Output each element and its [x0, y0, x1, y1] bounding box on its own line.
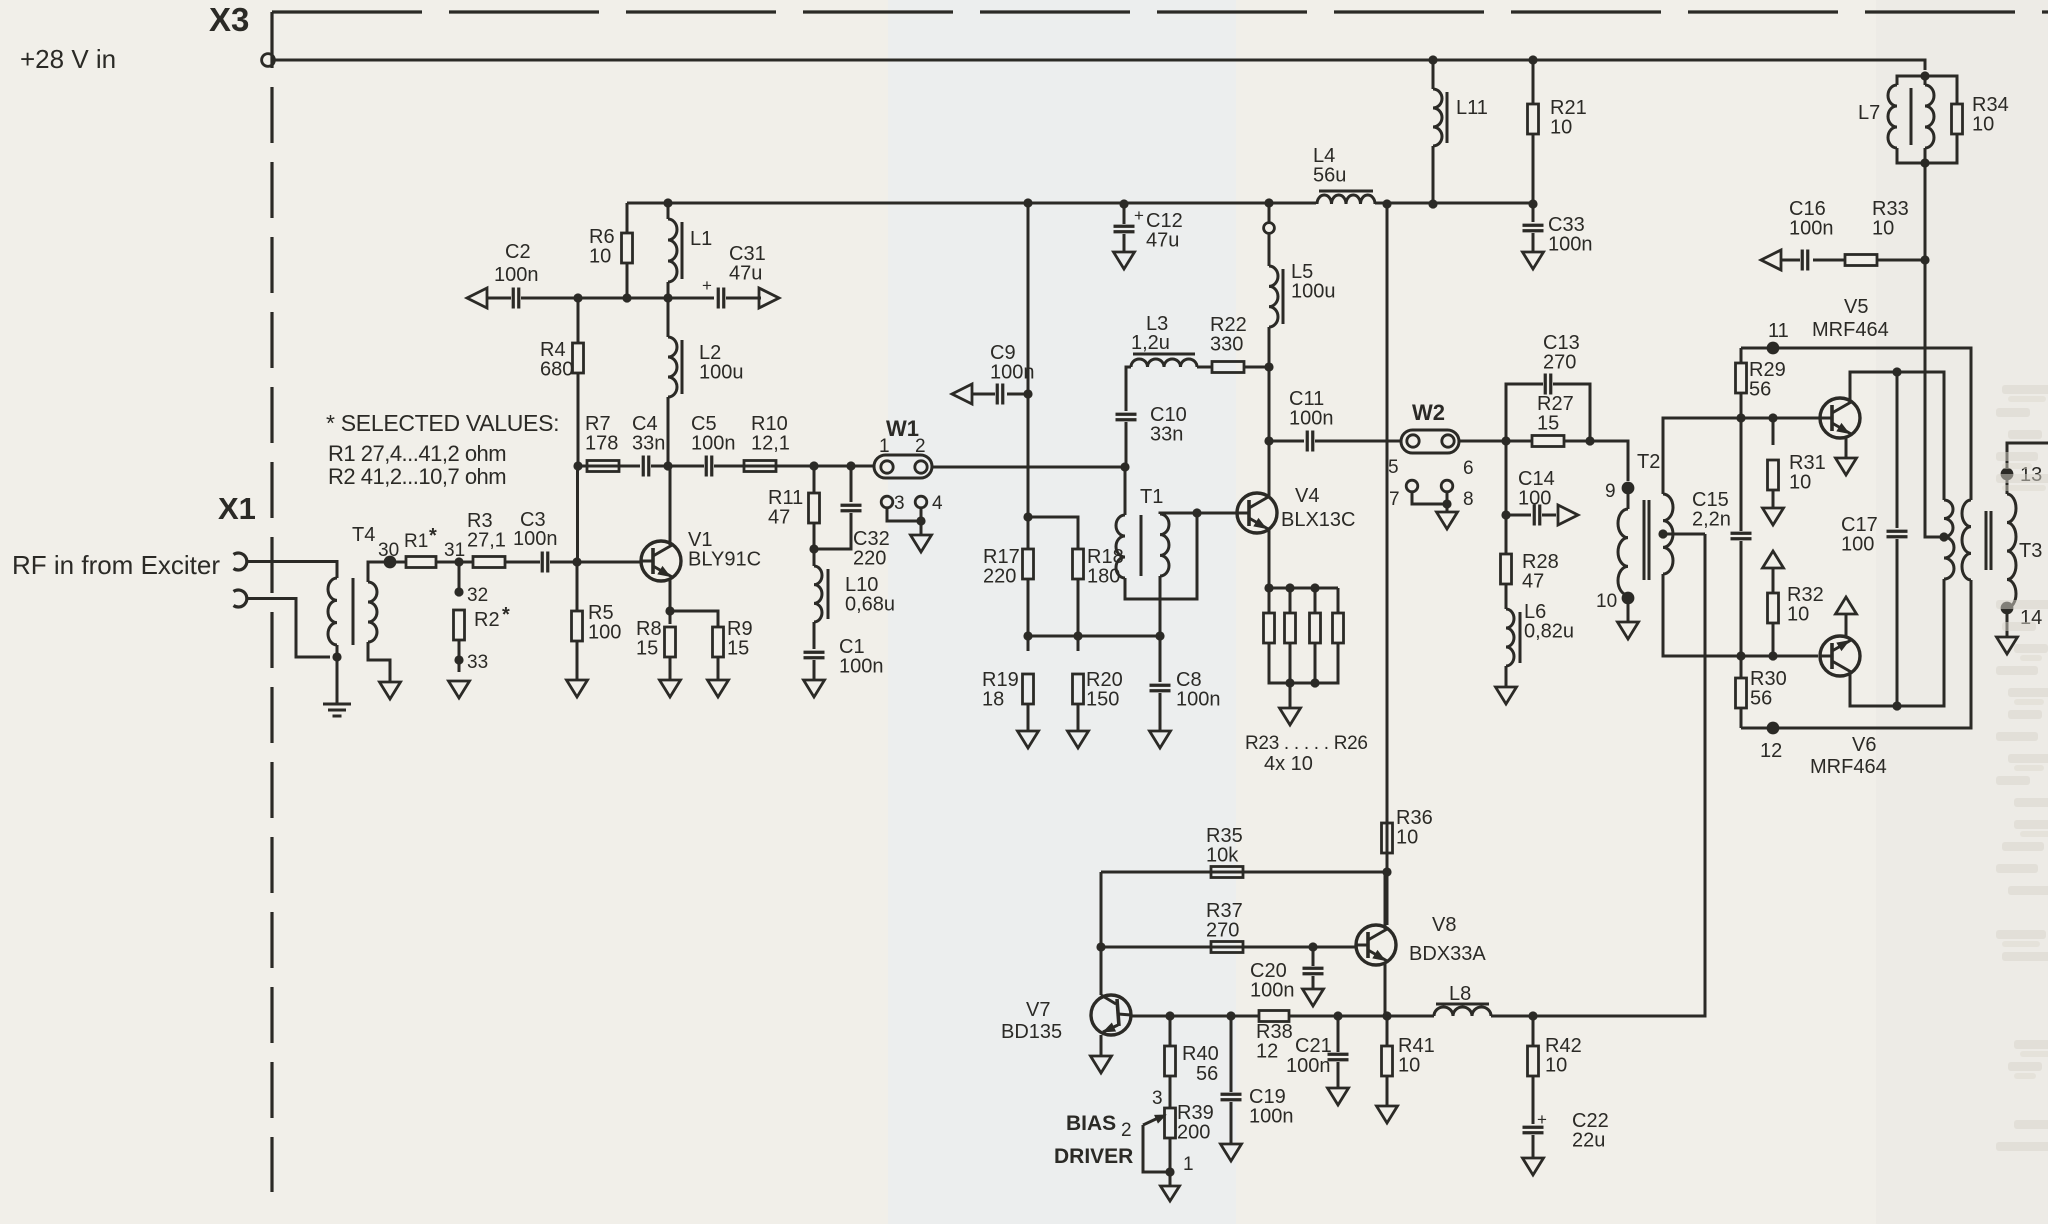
resistor R38	[1259, 1011, 1289, 1022]
junction rail x1028	[1023, 198, 1032, 207]
junction V5 base/R29	[1736, 413, 1745, 422]
junction R17/R18 tap	[1023, 512, 1032, 521]
resistor R32	[1772, 568, 1775, 593]
svg-text:5: 5	[1388, 457, 1399, 478]
capacitor C13 bypass loop	[1506, 384, 1543, 441]
resistor R9	[713, 627, 724, 657]
svg-text:L7: L7	[1858, 102, 1880, 124]
scan tint band middle	[888, 0, 1236, 1224]
resistor R3	[473, 557, 505, 568]
transformer T4	[328, 578, 337, 645]
svg-text:T2: T2	[1637, 451, 1660, 473]
wire V1 collector	[669, 466, 672, 545]
wire R35 row	[1101, 871, 1387, 874]
junction driver feed top	[1382, 199, 1391, 208]
junction emitter node	[665, 606, 674, 615]
inductor L10	[814, 566, 822, 622]
svg-text:27,1: 27,1	[467, 530, 506, 552]
wire R35 left down	[1100, 872, 1103, 995]
capacitor C11	[1269, 440, 1304, 443]
ground arrow R20	[1068, 731, 1089, 748]
svg-text:32: 32	[467, 585, 488, 606]
svg-text:L1: L1	[690, 228, 712, 250]
svg-text:31: 31	[444, 540, 465, 561]
junction T4 primary bottom	[332, 652, 341, 661]
junction T1 base node	[1192, 508, 1201, 517]
svg-text:R23 . . . . . R26: R23 . . . . . R26	[1245, 733, 1368, 754]
svg-text:W2: W2	[1412, 400, 1445, 425]
node 10	[1627, 595, 1630, 622]
svg-text:12: 12	[1760, 740, 1782, 762]
junction L7 top	[1920, 71, 1929, 80]
T2 secondary centre tap	[1658, 529, 1667, 538]
inductor L4	[1317, 195, 1375, 204]
svg-text:T1: T1	[1140, 486, 1163, 508]
svg-text:100: 100	[1518, 488, 1551, 510]
wire main row stage1	[578, 465, 640, 468]
junction R37 left	[1096, 942, 1105, 951]
svg-text:33: 33	[467, 652, 488, 673]
wire V5 collector	[1850, 372, 1944, 500]
svg-text:DRIVER: DRIVER	[1054, 1145, 1133, 1168]
junction L2 bottom collector node	[663, 461, 672, 470]
svg-text:* SELECTED VALUES:: * SELECTED VALUES:	[326, 410, 559, 436]
transformer T2 secondary	[1663, 494, 1673, 574]
wire X1 bottom pin to T4 bottom	[246, 599, 330, 658]
capacitor C19	[1230, 1016, 1233, 1092]
T3 feedback winding	[1962, 500, 1971, 580]
junction L7 bottom	[1920, 158, 1929, 167]
junction R4 top	[573, 293, 582, 302]
svg-text:BD135: BD135	[1001, 1021, 1062, 1043]
capacitor C16 branch	[1813, 259, 1845, 262]
svg-text:1: 1	[879, 436, 890, 457]
resistor R20	[1073, 674, 1084, 704]
svg-text:100: 100	[588, 622, 621, 644]
resistor R2* vertical	[458, 562, 461, 594]
ground arrow L6	[1496, 687, 1517, 704]
svg-text:R2: R2	[474, 609, 500, 631]
arrow C31 right	[759, 288, 779, 308]
potentiometer R39	[1165, 1108, 1176, 1138]
transistor V6 MRF464 flipped	[1820, 636, 1860, 676]
resistor R23	[1268, 588, 1271, 613]
ground arrow C20	[1303, 989, 1324, 1006]
ground arrow C12	[1114, 252, 1135, 269]
svg-text:L11: L11	[1456, 97, 1488, 119]
resistor R36	[1382, 823, 1393, 853]
junction C33 top	[1528, 199, 1537, 208]
wire V6 emitter up to ground	[1845, 614, 1848, 638]
wire emitter bus y1016	[1131, 1015, 1259, 1018]
svg-text:100n: 100n	[691, 433, 736, 455]
wire V4 emitter	[1268, 530, 1271, 588]
resistor R19	[1023, 674, 1034, 704]
svg-text:220: 220	[853, 548, 886, 570]
svg-text:100: 100	[1841, 534, 1874, 556]
capacitor C8	[1159, 636, 1162, 682]
svg-text:10: 10	[1596, 591, 1617, 612]
ground arrow R39	[1161, 1186, 1180, 1201]
svg-text:22u: 22u	[1572, 1130, 1605, 1152]
svg-text:3: 3	[1152, 1088, 1163, 1109]
svg-text:680: 680	[540, 359, 573, 381]
svg-text:T4: T4	[352, 524, 375, 546]
svg-text:V7: V7	[1026, 999, 1050, 1021]
inductor L6	[1506, 609, 1514, 666]
resistor R33	[1845, 255, 1877, 266]
junction R35/R36	[1382, 867, 1391, 876]
junction R27 right	[1585, 436, 1594, 445]
svg-text:*: *	[502, 604, 510, 626]
wire R37 row	[1101, 946, 1356, 949]
svg-text:R2 41,2...10,7 ohm: R2 41,2...10,7 ohm	[328, 464, 506, 489]
capacitor C14 branch	[1505, 441, 1508, 515]
junction C13/C14 node	[1501, 436, 1510, 445]
inductor L7 bifilar	[1897, 76, 1925, 85]
junction L1 bottom / L2 top	[663, 293, 672, 302]
svg-text:100n: 100n	[1286, 1055, 1331, 1077]
svg-text:10: 10	[1787, 604, 1809, 626]
svg-text:11: 11	[1768, 320, 1789, 342]
resistor R26	[1337, 588, 1340, 613]
junction C32 top	[846, 461, 855, 470]
wire collector rail y203	[626, 203, 629, 217]
svg-text:MRF464: MRF464	[1810, 756, 1887, 778]
junction L5 top	[1264, 198, 1273, 207]
inductor L2	[667, 298, 670, 337]
svg-text:3: 3	[894, 493, 905, 514]
svg-text:10: 10	[1550, 117, 1572, 139]
node 9	[1622, 482, 1635, 495]
ground arrow above R32	[1763, 551, 1784, 568]
wire V6 collector rail	[1850, 579, 1944, 706]
capacitor C21	[1337, 1016, 1340, 1052]
svg-text:6: 6	[1463, 458, 1474, 479]
resistor R40	[1169, 1016, 1172, 1046]
wire L8 to R42 and bias feed	[1491, 534, 1705, 1016]
svg-text:100u: 100u	[699, 362, 744, 384]
svg-text:47: 47	[768, 507, 790, 529]
wire L5 top with test point	[1268, 203, 1271, 222]
junction R4/R7	[573, 461, 582, 470]
resistor R7	[587, 461, 619, 472]
svg-text:10: 10	[1972, 114, 1994, 136]
junction C17 top	[1892, 367, 1901, 376]
wire R1 to node 31	[436, 561, 474, 564]
transformer T2 primary	[1627, 488, 1630, 509]
svg-text:2,2n: 2,2n	[1692, 509, 1731, 531]
resistor R24	[1289, 588, 1292, 613]
transistor V4 BLX13C	[1237, 493, 1277, 533]
junction C10 bottom on W1 line	[1120, 462, 1129, 471]
ground arrow R5	[567, 680, 588, 697]
transistor V5 MRF464	[1820, 398, 1860, 438]
ground arrow C21	[1328, 1088, 1349, 1105]
svg-text:V4: V4	[1295, 485, 1319, 507]
arrow C9 left	[952, 384, 972, 404]
wire V8 emitter	[1384, 962, 1387, 1016]
svg-text:15: 15	[727, 638, 749, 660]
node 14	[2006, 608, 2009, 637]
junction R31 top	[1768, 413, 1777, 422]
svg-text:X3: X3	[209, 1, 249, 38]
inductor L3	[1131, 359, 1197, 367]
svg-text:L8: L8	[1449, 983, 1471, 1005]
svg-text:X1: X1	[218, 491, 256, 526]
wire V7 collector to ground	[1100, 1035, 1103, 1056]
svg-text:4x 10: 4x 10	[1264, 753, 1313, 775]
wire W1 pin2 onward	[932, 466, 1124, 469]
capacitor C5	[706, 456, 712, 477]
arrow C16 left	[1761, 250, 1781, 270]
wire to W1	[851, 465, 874, 468]
svg-text:+: +	[702, 276, 712, 295]
svg-text:10: 10	[1398, 1055, 1420, 1077]
svg-text:10k: 10k	[1206, 845, 1239, 867]
wire tap to R18	[1028, 517, 1078, 549]
capacitor C10	[1116, 414, 1137, 420]
resistor R8	[665, 627, 676, 657]
resistor R6	[622, 233, 633, 263]
resistor R21	[1528, 55, 1537, 64]
junction C12 top	[1119, 199, 1128, 208]
svg-text:R1 27,4...41,2 ohm: R1 27,4...41,2 ohm	[328, 441, 506, 466]
capacitor C33	[1523, 225, 1544, 231]
wire T4 secondary top to node 30	[368, 562, 406, 582]
wire +28V rail	[275, 60, 1926, 70]
wire X1 top pin to T4	[246, 562, 337, 579]
capacitor C17	[1896, 372, 1899, 528]
resistor R1*	[406, 557, 436, 568]
R39 wiper arrow	[1155, 1115, 1166, 1123]
svg-text:+28 V in: +28 V in	[20, 44, 116, 74]
ground arrow C22	[1523, 1158, 1544, 1175]
svg-text:10: 10	[1872, 218, 1894, 240]
terminal X1 pin bottom	[234, 590, 247, 607]
resistor R31	[1772, 418, 1775, 445]
svg-text:100n: 100n	[1176, 689, 1221, 711]
svg-text:9: 9	[1605, 481, 1616, 502]
svg-text:0,68u: 0,68u	[845, 594, 895, 616]
svg-text:R1: R1	[404, 531, 428, 552]
resistor R37	[1211, 942, 1243, 953]
svg-text:+: +	[1134, 206, 1144, 225]
svg-text:4: 4	[932, 493, 943, 514]
ground arrow pins 3-4	[911, 535, 932, 552]
svg-text:100n: 100n	[990, 362, 1035, 384]
svg-text:220: 220	[983, 566, 1016, 588]
wire T4 secondary bottom	[368, 642, 390, 682]
ground arrow V6 emitter up	[1836, 597, 1857, 614]
svg-text:100n: 100n	[839, 656, 884, 678]
wire C3 to V1 base	[550, 561, 641, 564]
wire C2/C31 row	[486, 297, 511, 300]
junction C9	[1023, 389, 1032, 398]
capacitor C20	[1312, 947, 1315, 966]
svg-text:MRF464: MRF464	[1812, 319, 1889, 341]
svg-text:100n: 100n	[494, 264, 539, 286]
transistor V8 BDX33A	[1356, 925, 1396, 965]
resistor R28	[1505, 515, 1508, 554]
svg-text:150: 150	[1086, 689, 1119, 711]
junction C17 bottom	[1892, 701, 1901, 710]
wire T2 secondary bottom to V6 base	[1663, 574, 1818, 656]
junction C19 top	[1226, 1011, 1235, 1020]
inductor L11	[1428, 55, 1437, 64]
svg-text:100u: 100u	[1291, 281, 1336, 303]
resistor R34	[1925, 76, 1957, 104]
svg-text:BLY91C: BLY91C	[688, 549, 761, 571]
node 11 rail	[1741, 348, 1971, 500]
resistor R10	[744, 461, 776, 472]
wire V5 emitter to ground	[1845, 436, 1848, 458]
svg-text:1: 1	[1183, 1154, 1194, 1175]
inductor L1	[663, 198, 672, 207]
junction R33	[1920, 255, 1929, 264]
pin 8 of W2	[1441, 480, 1453, 492]
wire T1 primary bottom loop to base node	[1125, 513, 1197, 599]
junction R30 top	[1736, 651, 1745, 660]
resistor R4	[577, 298, 580, 343]
ground arrow C8	[1150, 731, 1171, 748]
wire V7 base from R37 node	[1100, 947, 1103, 995]
wire R33 junction down to T3 centre tap	[1925, 260, 1944, 537]
svg-text:178: 178	[585, 433, 618, 455]
resistor R42	[1532, 1016, 1535, 1046]
svg-text:56: 56	[1749, 379, 1771, 401]
junction R42 top	[1528, 1011, 1537, 1020]
jumper W2	[1401, 430, 1459, 453]
scan bleed-through ghost text right margin	[2002, 385, 2048, 394]
ground arrow R8	[660, 680, 681, 697]
ground arrow V7	[1091, 1056, 1112, 1073]
capacitor C3	[542, 552, 548, 573]
wire V4 collector	[1268, 367, 1271, 497]
svg-text:10: 10	[1789, 472, 1811, 494]
terminal X1 pin top	[234, 553, 247, 570]
transistor V1 BLY91C	[641, 541, 681, 581]
svg-text:*: *	[429, 525, 437, 547]
wire W2 pin6 to R27 node	[1459, 440, 1532, 443]
svg-text:330: 330	[1210, 334, 1243, 356]
svg-text:100n: 100n	[1548, 234, 1593, 256]
pin 3 of W1	[881, 496, 893, 508]
earth ground T4	[323, 704, 351, 716]
wire L3 left to C10	[1126, 367, 1131, 411]
svg-text:200: 200	[1177, 1122, 1210, 1144]
ground arrow R23-R26	[1289, 683, 1292, 708]
T3 secondary	[2007, 494, 2016, 608]
junction R40 top	[1165, 1011, 1174, 1020]
resistor R30	[1740, 656, 1743, 678]
svg-text:270: 270	[1206, 920, 1239, 942]
wire feed column x1028	[1027, 203, 1030, 549]
svg-text:2: 2	[1121, 1120, 1132, 1141]
node 31 junction	[454, 557, 463, 566]
svg-text:56: 56	[1196, 1063, 1218, 1085]
svg-text:12: 12	[1256, 1041, 1278, 1063]
wire L7 to V5 collector node	[1924, 163, 1927, 260]
junction R11/C32/L10	[809, 544, 818, 553]
svg-text:100n: 100n	[1789, 218, 1834, 240]
inductor L8	[1434, 1007, 1491, 1016]
capacitor C2	[513, 288, 519, 309]
capacitor C4	[643, 456, 649, 477]
wire T1 secondary bottom to bias bus	[1159, 576, 1162, 682]
wire emitter to R9	[670, 611, 718, 627]
T3 core	[1985, 511, 1988, 570]
ground arrow T2 primary	[1618, 622, 1639, 639]
junction V6 base/R32	[1768, 651, 1777, 660]
svg-text:7: 7	[1389, 489, 1400, 510]
svg-text:100n: 100n	[513, 528, 558, 550]
ground arrow R2	[449, 681, 470, 698]
jumper W1	[874, 455, 932, 478]
junction base node	[572, 557, 581, 566]
resistor R18	[1073, 549, 1084, 579]
capacitor C32	[850, 466, 853, 502]
svg-text:BDX33A: BDX33A	[1409, 943, 1486, 965]
svg-text:RF in from Exciter: RF in from Exciter	[12, 550, 220, 580]
wire pins 3-4 to ground	[887, 508, 921, 521]
svg-text:12,1: 12,1	[751, 433, 790, 455]
ground arrow T3 secondary	[1997, 637, 2018, 654]
svg-text:100n: 100n	[1249, 1106, 1294, 1128]
svg-text:BIAS: BIAS	[1066, 1112, 1116, 1135]
node 12 rail	[1741, 580, 1971, 728]
ground arrow pins 7-8	[1437, 512, 1458, 529]
junction V8 emitter	[1382, 1011, 1391, 1020]
svg-text:R40: R40	[1182, 1043, 1219, 1065]
resistor R11	[813, 466, 816, 493]
svg-text:C21: C21	[1295, 1035, 1332, 1057]
wire T2 secondary top to V5 base	[1663, 418, 1819, 494]
resistor R41	[1386, 1016, 1389, 1046]
transformer T3 primary	[1944, 500, 1953, 537]
ground arrow R31	[1763, 508, 1784, 525]
junction R6 bottom	[622, 293, 631, 302]
terminal X3 pin	[262, 54, 275, 67]
node 13	[2007, 443, 2048, 494]
wire bias bus y636	[1028, 635, 1160, 638]
T2 core	[1643, 500, 1646, 580]
module border dashed top	[272, 10, 2048, 13]
wire pins 7-8 ground	[1412, 492, 1447, 504]
svg-text:BLX13C: BLX13C	[1281, 509, 1356, 531]
svg-text:47u: 47u	[1146, 230, 1179, 252]
junction C21 top	[1333, 1011, 1342, 1020]
svg-text:10: 10	[1545, 1055, 1567, 1077]
wire R7 junction down to base node	[576, 466, 579, 562]
capacitor C15	[1740, 418, 1743, 531]
ground arrow R9	[708, 680, 729, 697]
svg-text:0,82u: 0,82u	[1524, 621, 1574, 643]
ground arrow R41	[1377, 1106, 1398, 1123]
wire V8 collector	[1384, 872, 1387, 929]
arrow C14 right	[1558, 505, 1578, 525]
resistor R25	[1314, 588, 1317, 613]
svg-text:V8: V8	[1432, 914, 1456, 936]
resistor R22	[1197, 366, 1212, 369]
arrow to supply left	[467, 288, 487, 308]
capacitor C9 branch	[1007, 393, 1028, 396]
transistor V7 BD135 rotated	[1091, 995, 1131, 1035]
resistor R29	[1740, 348, 1743, 363]
svg-text:V6: V6	[1852, 734, 1876, 756]
emitter resistor bank R23-R26 top bus	[1264, 583, 1273, 592]
svg-text:30: 30	[378, 540, 399, 561]
